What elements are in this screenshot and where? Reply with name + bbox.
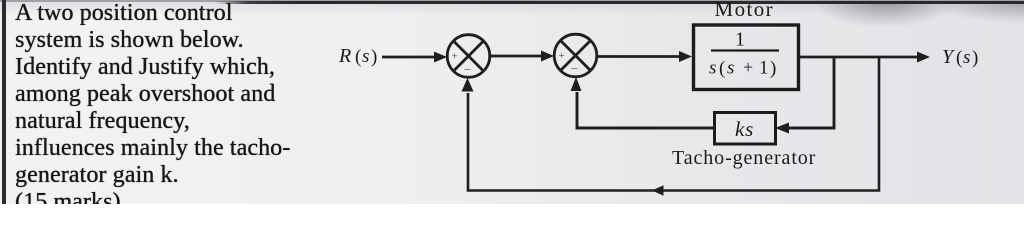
svg-text:+: +: [743, 57, 753, 77]
svg-text:): ): [770, 58, 776, 79]
svg-text:Tacho-generator: Tacho-generator: [672, 147, 816, 169]
label Tacho-generator: [672, 147, 816, 169]
wire S2 to Motor block (arrow): [597, 51, 692, 62]
svg-text:–: –: [571, 60, 579, 74]
svg-text:1: 1: [759, 58, 769, 79]
label Motor: [715, 0, 775, 21]
svg-text:): ): [371, 47, 377, 68]
summing junction S1: [447, 35, 490, 78]
svg-text:(: (: [719, 58, 725, 79]
node Y(s) output label: [942, 46, 978, 69]
svg-text:Motor: Motor: [715, 0, 775, 21]
node R(s) input label: [338, 45, 377, 68]
wire Motor to Y(s) output (arrow): [799, 52, 930, 63]
svg-text:s: s: [727, 58, 734, 79]
svg-text:s: s: [963, 47, 970, 68]
wire: tap at node A (x=834) down and left into ks block (arrow): [775, 57, 834, 134]
svg-text:(: (: [956, 48, 962, 69]
svg-text:s: s: [362, 46, 369, 67]
wire outer feedback: tap at node B (x=879) down, left (arrow mid-way), up into S1 (arrow): [462, 57, 880, 196]
svg-text:+: +: [559, 51, 565, 62]
wire R(s) to summing junction S1 (arrow): [382, 52, 447, 63]
summing junction S2: [554, 34, 597, 77]
svg-text:R: R: [338, 45, 351, 67]
svg-text:): ): [972, 48, 978, 69]
svg-text:s: s: [709, 58, 716, 79]
block U1: motor transfer function 1/s(s+1): [694, 25, 799, 90]
svg-text:ks: ks: [735, 117, 754, 141]
svg-text:–: –: [464, 61, 472, 75]
svg-text:(: (: [355, 47, 361, 68]
svg-text:+: +: [452, 52, 458, 63]
question text block: [15, 0, 315, 216]
svg-text:Y: Y: [942, 46, 955, 68]
wire ks output up into S2 (arrow): [571, 77, 716, 128]
wire S1 to summing junction S2 (arrow): [490, 51, 554, 62]
block ks: tacho-generator gain: [715, 113, 776, 145]
svg-text:1: 1: [735, 29, 745, 51]
